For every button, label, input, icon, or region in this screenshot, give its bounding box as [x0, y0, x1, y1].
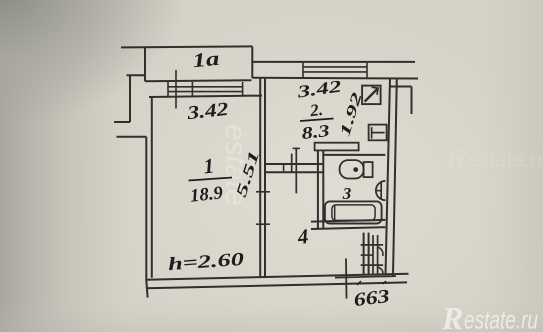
entry nook rung 1 [361, 244, 384, 246]
door tick room1 upper [256, 191, 270, 193]
window kitchen left jamb [302, 62, 304, 78]
kitchen fixture inner horizontal [372, 132, 385, 134]
room 1 right wall line b [264, 78, 266, 276]
balcony 1a right edge [251, 46, 253, 78]
room 1 top wall [149, 96, 262, 97]
entry nook wall line a [363, 233, 365, 275]
entry nook wall line d [377, 235, 379, 274]
sink chord [380, 183, 382, 199]
window room 1 inner line a [168, 86, 243, 88]
bathroom bottom wall line a [311, 220, 385, 222]
bottom wall extra line [335, 276, 396, 278]
bathroom top inner edge [323, 154, 385, 156]
window room 1 left jamb [167, 82, 169, 96]
door tick kitchen [293, 147, 300, 149]
window kitchen inner line b [303, 71, 367, 73]
window kitchen right jamb [366, 62, 368, 78]
exterior wall stub left upper [127, 74, 146, 76]
right wall stub vertical [411, 87, 413, 115]
sink bathroom [376, 181, 386, 200]
dimension tick bottom [345, 258, 348, 298]
bathroom left wall outer [317, 151, 319, 229]
svg-text:estate.ru: estate.ru [464, 305, 538, 332]
svg-text:3: 3 [342, 184, 352, 203]
bathroom left wall inner [322, 151, 324, 229]
vent shaft square [362, 86, 381, 105]
watermark bottom-right (Restate.ru) [441, 300, 538, 332]
room 1 left wall outer [146, 137, 147, 298]
wall kitchen-hall divider [283, 164, 285, 172]
exterior wall left ledge [117, 136, 147, 138]
wall kitchen-hall lower line [265, 171, 323, 173]
door leaf kitchen [295, 148, 297, 194]
kitchen top wall outer [252, 61, 415, 63]
exterior wall stub left vertical [129, 75, 131, 122]
kitchen fixture inner vertical [371, 127, 373, 139]
toilet bowl [340, 160, 364, 178]
svg-text:2.: 2. [308, 100, 324, 121]
window room 1 mullion [191, 82, 193, 96]
entry nook wall line b [368, 233, 370, 275]
bathtub outer [325, 201, 382, 223]
bathroom top wall stub [315, 143, 359, 151]
svg-text:8.3: 8.3 [300, 121, 331, 143]
entry nook wall line c [372, 235, 374, 274]
vent hook [372, 87, 379, 95]
window kitchen inner line a [303, 66, 367, 68]
entry nook rung 3 [361, 264, 384, 266]
entry nook door arc 2 [378, 267, 383, 275]
bottom wall outer line [146, 274, 408, 280]
label 2 underline [300, 119, 334, 122]
bathroom bottom wall line b [311, 227, 385, 229]
room 1 right wall line a [259, 78, 261, 276]
room 1 left wall inner [151, 97, 153, 278]
exterior wall stub left lower horizontal [114, 121, 130, 123]
right wall inner [386, 78, 391, 275]
bathtub head line [334, 205, 336, 221]
bathtub inner [332, 205, 375, 221]
door tick room1 lower [256, 223, 270, 225]
svg-text:663: 663 [353, 286, 391, 311]
entry nook rung 2 [361, 254, 373, 256]
svg-text:1a: 1a [191, 48, 220, 73]
door jamb kitchen [291, 154, 293, 173]
toilet flush dot [353, 167, 358, 172]
right wall stub horizontal [390, 86, 412, 88]
sink tick [376, 190, 381, 192]
663 accent marks [357, 281, 386, 285]
svg-text:3.42: 3.42 [185, 99, 230, 124]
right wall outer [393, 79, 397, 276]
balcony 1a top edge [121, 46, 252, 47]
kitchen top wall inner [252, 77, 418, 80]
entry nook door arc 1 [378, 247, 383, 256]
window room 1 right jamb [242, 82, 244, 96]
window room 1 inner line b [168, 91, 243, 93]
label 1 underline [189, 178, 233, 181]
bottom wall inner line [146, 282, 407, 288]
dimension tick window [175, 70, 177, 109]
toilet tank [364, 162, 373, 177]
svg-text:18.9: 18.9 [189, 183, 224, 206]
svg-text:R: R [441, 300, 463, 332]
vent diagonal [365, 89, 378, 102]
wall kitchen-hall upper line [265, 163, 323, 165]
balcony 1a left edge [144, 47, 146, 82]
balcony 1a bottom edge [145, 80, 252, 81]
kitchen fixture box [369, 125, 387, 141]
